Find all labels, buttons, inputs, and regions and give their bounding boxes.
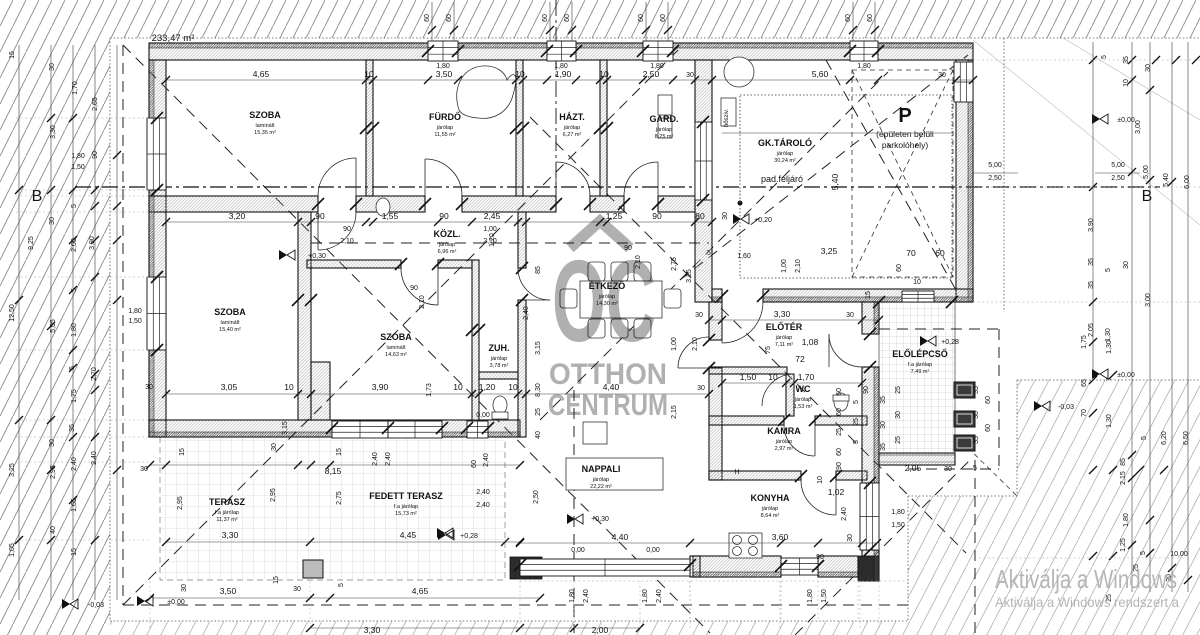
svg-text:laminált: laminált (221, 320, 240, 326)
svg-text:15: 15 (179, 448, 186, 456)
svg-text:6,00: 6,00 (1184, 175, 1191, 189)
svg-text:30: 30 (145, 384, 153, 391)
svg-text:233,47 m²: 233,47 m² (152, 33, 195, 44)
svg-text:30: 30 (1123, 261, 1130, 269)
svg-text:1,50: 1,50 (128, 318, 142, 325)
svg-text:ELŐTÉR: ELŐTÉR (766, 321, 803, 332)
svg-text:90: 90 (652, 211, 662, 221)
svg-text:35: 35 (69, 424, 76, 432)
svg-text:GK.TÁROLÓ: GK.TÁROLÓ (758, 137, 812, 148)
svg-text:5,00: 5,00 (1111, 162, 1125, 169)
svg-text:22,22 m²: 22,22 m² (590, 484, 612, 490)
svg-text:0,00: 0,00 (571, 547, 585, 554)
svg-text:1,80: 1,80 (554, 63, 568, 70)
svg-text:8,30: 8,30 (535, 383, 542, 397)
svg-text:járólap: járólap (436, 125, 454, 131)
svg-text:70: 70 (906, 248, 916, 258)
svg-text:10: 10 (515, 69, 525, 79)
svg-text:30,24 m²: 30,24 m² (774, 158, 796, 164)
svg-text:4,40: 4,40 (612, 532, 629, 542)
svg-text:járólap: járólap (438, 242, 456, 248)
svg-text:3,15: 3,15 (535, 341, 542, 355)
svg-text:70: 70 (1081, 409, 1088, 417)
svg-text:30: 30 (880, 421, 887, 429)
svg-text:1,75: 1,75 (1081, 335, 1088, 349)
svg-text:5: 5 (1141, 436, 1148, 440)
svg-text:6,27 m²: 6,27 m² (563, 132, 582, 138)
svg-text:60: 60 (836, 408, 843, 416)
svg-text:2,40: 2,40 (91, 451, 98, 465)
svg-text:5,00: 5,00 (988, 162, 1002, 169)
svg-text:35: 35 (973, 436, 980, 444)
svg-text:25: 25 (535, 408, 542, 416)
svg-text:4,40: 4,40 (603, 382, 620, 392)
svg-text:1,53 m²: 1,53 m² (794, 404, 813, 410)
svg-text:10: 10 (508, 382, 518, 392)
svg-text:80: 80 (695, 211, 705, 221)
svg-text:2,50: 2,50 (1111, 175, 1125, 182)
svg-text:35: 35 (880, 396, 887, 404)
svg-text:1,80: 1,80 (857, 63, 871, 70)
svg-text:1,80: 1,80 (71, 153, 85, 160)
svg-text:10,00: 10,00 (1170, 551, 1188, 558)
svg-text:15: 15 (336, 448, 343, 456)
svg-text:3,50: 3,50 (220, 586, 237, 596)
svg-text:1,80: 1,80 (650, 63, 664, 70)
svg-text:f.a járólap: f.a járólap (908, 362, 932, 368)
svg-text:1,90: 1,90 (555, 69, 572, 79)
svg-text:3,25: 3,25 (9, 463, 16, 477)
svg-text:65: 65 (1081, 379, 1088, 387)
svg-text:2,40: 2,40 (385, 452, 392, 466)
svg-text:30: 30 (846, 312, 854, 319)
svg-text:3,15: 3,15 (282, 421, 289, 435)
svg-text:60: 60 (985, 424, 992, 432)
svg-text:KAMRA: KAMRA (767, 426, 801, 436)
svg-text:2,95: 2,95 (50, 465, 57, 479)
svg-text:KONYHA: KONYHA (750, 493, 790, 503)
svg-text:6,96 m²: 6,96 m² (438, 249, 457, 255)
svg-text:3,90: 3,90 (89, 236, 96, 250)
svg-text:90: 90 (624, 245, 632, 252)
svg-text:±0,00: ±0,00 (167, 599, 185, 606)
svg-text:FEDETT TERASZ: FEDETT TERASZ (369, 491, 443, 501)
svg-text:30: 30 (49, 217, 56, 225)
svg-text:14,30 m²: 14,30 m² (596, 301, 618, 307)
svg-text:1,30: 1,30 (1106, 414, 1113, 428)
svg-text:6,50: 6,50 (1183, 431, 1190, 445)
svg-text:6,20: 6,20 (1161, 431, 1168, 445)
svg-text:1,65: 1,65 (71, 498, 78, 512)
svg-text:WC: WC (796, 384, 811, 394)
svg-text:2,75: 2,75 (336, 491, 343, 505)
svg-text:+0,28: +0,28 (460, 533, 478, 540)
svg-text:30: 30 (49, 439, 56, 447)
svg-text:60: 60 (471, 460, 478, 468)
svg-text:8,64 m²: 8,64 m² (761, 513, 780, 519)
svg-text:+0,28: +0,28 (941, 339, 959, 346)
svg-text:25: 25 (853, 418, 860, 426)
svg-text:90: 90 (92, 151, 99, 159)
svg-text:30: 30 (695, 312, 703, 319)
svg-text:3,05: 3,05 (221, 382, 238, 392)
svg-text:7,49 m²: 7,49 m² (911, 369, 930, 375)
svg-text:1,80: 1,80 (642, 589, 649, 603)
svg-text:4,65: 4,65 (253, 69, 270, 79)
svg-text:3,20: 3,20 (229, 211, 246, 221)
svg-text:2,15: 2,15 (671, 405, 678, 419)
svg-text:Aktiválja a Windows: Aktiválja a Windows (995, 564, 1177, 594)
svg-text:60: 60 (896, 264, 903, 272)
svg-text:ÉTKEZŐ: ÉTKEZŐ (589, 280, 626, 291)
svg-text:3,60: 3,60 (772, 532, 789, 542)
svg-text:2,65: 2,65 (92, 97, 99, 111)
svg-text:30: 30 (293, 586, 301, 593)
svg-text:laminált: laminált (387, 345, 406, 351)
svg-text:hősziv.: hősziv. (724, 109, 730, 128)
svg-text:2,97 m²: 2,97 m² (775, 446, 794, 452)
svg-text:30: 30 (847, 534, 854, 542)
svg-text:SZOBA: SZOBA (380, 332, 412, 342)
svg-text:1,50: 1,50 (891, 522, 905, 529)
svg-text:15,40 m²: 15,40 m² (219, 327, 241, 333)
svg-text:60: 60 (867, 14, 874, 22)
svg-text:90: 90 (863, 386, 870, 394)
svg-text:30: 30 (944, 466, 952, 473)
svg-text:2,40: 2,40 (476, 489, 490, 496)
svg-text:1,25: 1,25 (1120, 538, 1127, 552)
svg-text:30: 30 (722, 212, 729, 220)
svg-text:30: 30 (49, 63, 56, 71)
svg-text:3,25: 3,25 (686, 269, 693, 283)
svg-text:85: 85 (1120, 458, 1127, 466)
svg-text:2,50: 2,50 (533, 490, 540, 504)
svg-text:30: 30 (938, 72, 946, 79)
svg-text:30: 30 (181, 584, 188, 592)
svg-text:laminált: laminált (256, 123, 275, 129)
svg-text:3,50: 3,50 (436, 69, 453, 79)
svg-text:1,25: 1,25 (606, 211, 623, 221)
svg-text:1,80: 1,80 (71, 323, 78, 337)
svg-text:30: 30 (895, 411, 902, 419)
svg-text:10: 10 (364, 69, 374, 79)
svg-text:1,80: 1,80 (436, 63, 450, 70)
svg-text:járólap: járólap (592, 477, 610, 483)
svg-text:1,05: 1,05 (9, 543, 16, 557)
svg-text:+0,30: +0,30 (591, 516, 609, 523)
svg-text:15,35 m²: 15,35 m² (254, 130, 276, 136)
svg-text:járólap: járólap (655, 127, 673, 133)
svg-text:60: 60 (564, 14, 571, 22)
svg-text:1,80: 1,80 (128, 308, 142, 315)
svg-text:2,00: 2,00 (592, 625, 609, 635)
svg-text:járólap: járólap (563, 125, 581, 131)
svg-text:4,45: 4,45 (400, 530, 417, 540)
svg-text:90: 90 (410, 285, 418, 292)
svg-text:2,10: 2,10 (692, 337, 699, 351)
svg-text:10: 10 (453, 382, 463, 392)
svg-text:30: 30 (1145, 64, 1152, 72)
svg-text:60: 60 (836, 388, 843, 396)
svg-text:2,40: 2,40 (483, 453, 490, 467)
svg-text:11,55 m²: 11,55 m² (434, 132, 455, 138)
svg-text:60: 60 (446, 14, 453, 22)
svg-text:P: P (898, 105, 911, 127)
svg-text:3,78 m²: 3,78 m² (490, 363, 509, 369)
svg-text:járólap: járólap (598, 294, 616, 300)
svg-text:8,25 m²: 8,25 m² (655, 134, 674, 140)
svg-text:2,45: 2,45 (484, 211, 501, 221)
svg-text:15: 15 (71, 548, 78, 556)
svg-text:pad.feljáró: pad.feljáró (761, 174, 803, 184)
svg-text:60: 60 (935, 248, 945, 258)
svg-text:2,50: 2,50 (643, 69, 660, 79)
svg-text:járólap: járólap (776, 151, 794, 157)
svg-text:FÜRDŐ: FÜRDŐ (429, 111, 461, 122)
svg-text:11,37 m²: 11,37 m² (216, 517, 237, 523)
svg-text:15: 15 (9, 51, 16, 59)
svg-text:60: 60 (424, 14, 431, 22)
svg-text:H: H (734, 469, 739, 476)
svg-text:2,95: 2,95 (270, 488, 277, 502)
svg-text:12,50: 12,50 (9, 304, 16, 322)
svg-text:85: 85 (535, 266, 542, 274)
svg-text:35: 35 (973, 386, 980, 394)
svg-text:2,05: 2,05 (1088, 323, 1095, 337)
svg-text:35: 35 (880, 443, 887, 451)
svg-text:30: 30 (686, 72, 694, 79)
svg-text:SZOBA: SZOBA (249, 110, 281, 120)
svg-text:25: 25 (895, 436, 902, 444)
svg-text:8,15: 8,15 (325, 466, 342, 476)
svg-text:9,25: 9,25 (28, 236, 35, 250)
svg-text:1,00: 1,00 (483, 226, 497, 233)
svg-text:5: 5 (1140, 551, 1147, 555)
svg-text:25: 25 (895, 386, 902, 394)
svg-text:5,00: 5,00 (1143, 165, 1150, 179)
svg-text:B: B (32, 188, 43, 205)
svg-text:25: 25 (836, 428, 843, 436)
svg-text:30: 30 (973, 411, 980, 419)
svg-text:5: 5 (973, 465, 977, 472)
svg-text:60: 60 (845, 14, 852, 22)
svg-text:10: 10 (768, 372, 778, 382)
svg-text:90: 90 (836, 462, 843, 470)
svg-text:10: 10 (599, 69, 609, 79)
svg-text:2,40: 2,40 (841, 507, 848, 521)
svg-text:40: 40 (535, 431, 542, 439)
svg-text:3,90: 3,90 (1088, 218, 1095, 232)
svg-text:B: B (1142, 188, 1153, 205)
svg-text:1,75: 1,75 (71, 389, 78, 403)
svg-text:1,80: 1,80 (569, 589, 576, 603)
svg-text:1,50: 1,50 (71, 164, 85, 171)
svg-text:5: 5 (853, 400, 860, 404)
svg-text:3,30: 3,30 (364, 625, 381, 635)
svg-text:járólap: járólap (794, 397, 812, 403)
svg-text:SZOBA: SZOBA (214, 307, 246, 317)
svg-text:TERASZ: TERASZ (209, 497, 246, 507)
svg-text:10: 10 (913, 279, 921, 286)
svg-text:0,00: 0,00 (646, 547, 660, 554)
svg-text:2,40: 2,40 (523, 306, 530, 320)
svg-text:1,00: 1,00 (671, 337, 678, 351)
svg-text:+0,30: +0,30 (308, 253, 326, 260)
svg-text:2,40: 2,40 (71, 457, 78, 471)
svg-text:2,10: 2,10 (419, 295, 426, 309)
svg-text:2,95: 2,95 (177, 496, 184, 510)
svg-text:ELŐLÉPCSŐ: ELŐLÉPCSŐ (892, 348, 948, 359)
svg-text:1,50: 1,50 (740, 372, 757, 382)
svg-text:2,75: 2,75 (671, 257, 678, 271)
svg-text:f.a járólap: f.a járólap (394, 504, 418, 510)
svg-text:1,08: 1,08 (802, 337, 819, 347)
svg-text:5: 5 (1101, 55, 1108, 59)
svg-text:7,11 m²: 7,11 m² (775, 342, 793, 348)
svg-text:4,65: 4,65 (412, 586, 429, 596)
svg-text:2,40: 2,40 (583, 589, 590, 603)
svg-text:1,80: 1,80 (891, 509, 905, 516)
svg-text:parkolóhely): parkolóhely) (882, 140, 928, 150)
svg-text:30: 30 (271, 443, 278, 451)
svg-text:1,73: 1,73 (426, 383, 433, 397)
svg-text:NAPPALI: NAPPALI (582, 464, 621, 474)
svg-text:2,40: 2,40 (656, 589, 663, 603)
svg-text:35: 35 (1088, 281, 1095, 289)
svg-text:3,30: 3,30 (50, 125, 57, 139)
svg-text:35: 35 (1088, 258, 1095, 266)
svg-text:60: 60 (836, 448, 843, 456)
svg-text:5: 5 (1105, 268, 1112, 272)
svg-text:5: 5 (853, 440, 860, 444)
svg-text:1,80: 1,80 (1123, 513, 1130, 527)
svg-text:7: 7 (1106, 377, 1113, 381)
svg-text:+0,20: +0,20 (754, 217, 772, 224)
svg-text:1,50: 1,50 (821, 589, 828, 603)
svg-text:(épületen belüli: (épületen belüli (876, 129, 934, 139)
svg-text:5: 5 (71, 204, 78, 208)
svg-text:14,63 m²: 14,63 m² (385, 352, 407, 358)
svg-text:10: 10 (817, 476, 824, 484)
svg-text:60: 60 (542, 14, 549, 22)
svg-text:60: 60 (985, 396, 992, 404)
svg-text:KÖZL.: KÖZL. (434, 229, 461, 239)
svg-text:3,00: 3,00 (1135, 120, 1142, 134)
svg-text:1,02: 1,02 (828, 487, 845, 497)
svg-text:5,40: 5,40 (830, 173, 840, 190)
svg-text:30: 30 (697, 385, 705, 392)
svg-text:30: 30 (140, 466, 148, 473)
svg-text:3,25: 3,25 (821, 246, 838, 256)
svg-text:0,00: 0,00 (476, 412, 490, 419)
svg-text:2,40: 2,40 (476, 502, 490, 509)
svg-text:72: 72 (795, 354, 805, 364)
svg-text:Aktiválja a Windows rendszert: Aktiválja a Windows rendszert a (995, 594, 1179, 610)
svg-text:1,55: 1,55 (382, 211, 399, 221)
svg-text:járólap: járólap (775, 439, 793, 445)
svg-text:1,60: 1,60 (737, 253, 751, 260)
svg-text:-0,03: -0,03 (88, 602, 104, 609)
svg-text:2,10: 2,10 (340, 238, 354, 245)
svg-text:2,00: 2,00 (71, 238, 78, 252)
svg-text:75: 75 (765, 346, 772, 354)
svg-text:HÁZT.: HÁZT. (559, 112, 585, 122)
svg-text:2,40: 2,40 (372, 452, 379, 466)
svg-text:2,10: 2,10 (635, 255, 642, 269)
svg-text:1,30: 1,30 (1106, 340, 1113, 354)
svg-text:2,10: 2,10 (795, 259, 802, 273)
svg-text:1,70: 1,70 (72, 81, 79, 95)
svg-text:1,30: 1,30 (1105, 328, 1112, 342)
svg-text:60: 60 (638, 14, 645, 22)
svg-text:3,90: 3,90 (372, 382, 389, 392)
svg-text:90: 90 (315, 211, 325, 221)
svg-text:3,30: 3,30 (222, 530, 239, 540)
svg-text:-0,03: -0,03 (1058, 404, 1074, 411)
svg-text:járólap: járólap (761, 506, 779, 512)
svg-text:90: 90 (439, 211, 449, 221)
svg-text:1,20: 1,20 (479, 382, 496, 392)
svg-text:3,00: 3,00 (1145, 293, 1152, 307)
svg-text:90: 90 (816, 554, 824, 561)
svg-text:3,30: 3,30 (774, 309, 791, 319)
svg-text:1,00: 1,00 (781, 259, 788, 273)
svg-text:5,60: 5,60 (812, 69, 829, 79)
svg-text:járólap: járólap (490, 356, 508, 362)
svg-text:10: 10 (284, 382, 294, 392)
svg-text:1,80: 1,80 (807, 589, 814, 603)
svg-text:60: 60 (660, 14, 667, 22)
svg-text:ZUH.: ZUH. (489, 343, 510, 353)
svg-text:15: 15 (273, 576, 280, 584)
svg-text:40: 40 (50, 526, 57, 534)
svg-text:1,70: 1,70 (798, 372, 815, 382)
svg-text:járólap: járólap (775, 335, 793, 341)
svg-text:15,73 m²: 15,73 m² (395, 511, 417, 517)
svg-text:15: 15 (865, 291, 872, 299)
svg-text:f.a járólap: f.a járólap (215, 510, 239, 516)
svg-text:GARD.: GARD. (650, 114, 679, 124)
svg-text:2,50: 2,50 (988, 175, 1002, 182)
svg-text:5: 5 (338, 583, 345, 587)
svg-text:1,20: 1,20 (489, 233, 496, 247)
svg-text:90: 90 (343, 226, 351, 233)
svg-text:2,15: 2,15 (1120, 471, 1127, 485)
